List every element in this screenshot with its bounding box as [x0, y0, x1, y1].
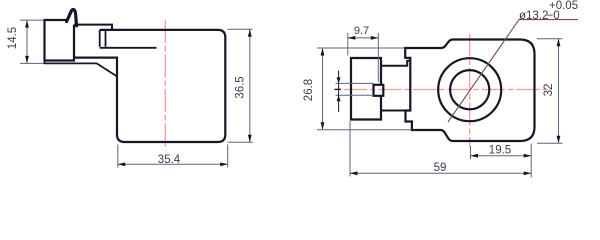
- dimension 59 arrows: [350, 171, 531, 175]
- dimension 32 extension lines: [537, 39, 563, 144]
- inner circle: [450, 70, 489, 109]
- svg-text:+0.05: +0.05: [549, 0, 578, 12]
- dimension 26.8 extension lines: [317, 48, 412, 130]
- small blade dimension arrows: [337, 77, 341, 101]
- dimension 59 extension line: [349, 121, 351, 177]
- svg-text:9.7: 9.7: [354, 25, 369, 37]
- centerline vertical: [469, 34, 471, 147]
- dimension 26.8 line: [322, 48, 324, 130]
- terminal blade lines: [336, 83, 374, 95]
- dimension 36.5 extension lines: [228, 29, 254, 142]
- svg-text:36.5: 36.5: [235, 76, 247, 98]
- dimension 19.5 line: [471, 155, 532, 157]
- terminal blade square: [374, 85, 384, 96]
- connector face rectangle: [351, 58, 381, 120]
- armature tube tab: [100, 30, 106, 47]
- connector clip hook: [67, 9, 77, 25]
- connector neck: [381, 61, 410, 111]
- diameter leader line: [448, 20, 578, 122]
- dimension 36.5 line: [249, 29, 251, 142]
- dimension 19.5 extension line: [471, 144, 532, 178]
- svg-text:32: 32: [543, 84, 555, 97]
- svg-text:14.5: 14.5: [7, 27, 19, 49]
- dimension 35.4 extension lines: [118, 145, 228, 168]
- dimension 59 line: [350, 172, 531, 174]
- coil body outline: [74, 30, 225, 142]
- dimension 35.4 line: [118, 163, 228, 165]
- dimension 35.4 arrows: [118, 162, 228, 166]
- dimension 14.5 extension lines: [20, 20, 44, 63]
- dimension 26.8 arrows: [321, 48, 325, 130]
- centerline left view: [164, 20, 166, 150]
- dimension 9.7 extension lines: [348, 33, 379, 82]
- main body outline: [405, 40, 534, 142]
- centerline horizontal: [344, 89, 552, 91]
- dimension 14.5 arrows: [25, 20, 29, 63]
- dimension 32 arrows: [557, 39, 561, 144]
- svg-text:26.8: 26.8: [303, 79, 315, 101]
- dimension 9.7 line: [348, 37, 379, 39]
- dimension 36.5 arrows: [248, 29, 252, 142]
- svg-text:35.4: 35.4: [158, 154, 181, 166]
- svg-text:ø13.2: ø13.2: [519, 10, 548, 22]
- top step wire: [74, 25, 112, 30]
- svg-text:59: 59: [434, 162, 447, 174]
- tube end line: [100, 47, 157, 49]
- small blade dimension line: [338, 71, 340, 113]
- connector body (side): [45, 20, 75, 61]
- svg-text:19.5: 19.5: [489, 145, 511, 157]
- dimension 14.5 line: [26, 20, 28, 63]
- dimension 9.7 arrows: [348, 36, 379, 40]
- dimension 32 line: [558, 39, 560, 144]
- outer circle: [438, 58, 501, 121]
- dimension 19.5 arrows: [471, 154, 532, 158]
- small blade tick: [335, 88, 342, 90]
- flange under connector: [45, 61, 118, 77]
